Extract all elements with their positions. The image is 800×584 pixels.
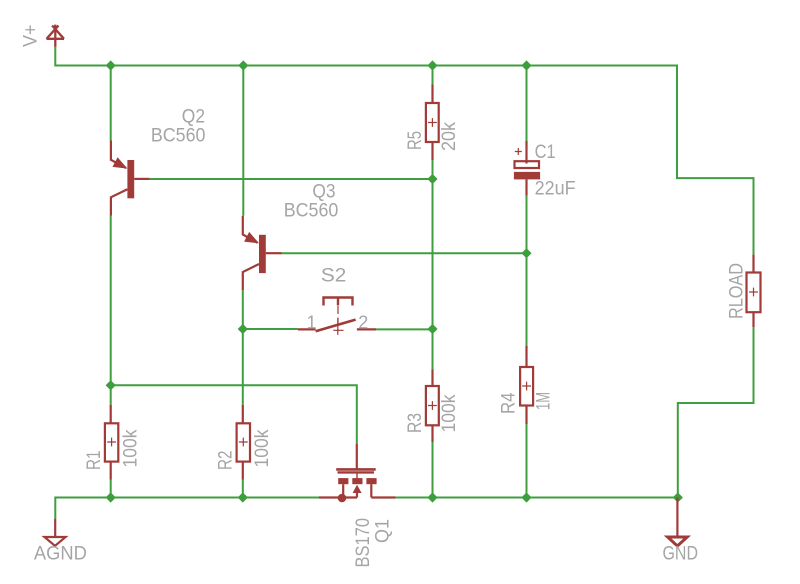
wire bottom rail right GND <box>396 497 678 499</box>
wire R5 top net <box>432 66 434 85</box>
resistor R5 <box>426 85 439 161</box>
resistor R1 <box>105 405 118 480</box>
junction bottom rail R4 <box>521 492 531 502</box>
junction S2 right <box>427 324 437 334</box>
svg-text:AGND: AGND <box>34 543 87 565</box>
wire RLOAD bottom to GND node <box>678 327 754 496</box>
svg-text:100k: 100k <box>438 394 460 432</box>
wire R3 bottom net <box>432 442 434 498</box>
svg-text:20k: 20k <box>438 122 460 151</box>
svg-text:RLOAD: RLOAD <box>726 263 748 319</box>
svg-text:1M: 1M <box>533 392 555 410</box>
ground GND symbol <box>668 498 688 547</box>
wire gate net <box>111 385 357 444</box>
svg-text:100k: 100k <box>120 429 142 467</box>
wire C1 top net <box>526 66 528 142</box>
wire V+ rail top <box>55 47 677 66</box>
wire Q2 base net <box>150 178 433 180</box>
junction S2 left <box>238 324 248 334</box>
wire Q2 emitter feed <box>110 66 112 141</box>
wire S2 pin2 net <box>376 328 433 330</box>
junction top rail A <box>106 60 116 70</box>
junction top rail C <box>427 60 437 70</box>
wire R4 bottom net <box>526 424 528 498</box>
svg-text:100k: 100k <box>251 429 273 467</box>
wire Q3 emitter feed <box>242 66 244 216</box>
svg-text:V+: V+ <box>20 25 42 48</box>
transistor Q2 <box>111 141 150 216</box>
resistor RLOAD <box>747 255 761 328</box>
wire R5 bottom to S2 node <box>432 160 434 329</box>
junction top rail D <box>521 60 531 70</box>
svg-text:22uF: 22uF <box>535 178 576 200</box>
svg-text:Q1: Q1 <box>372 519 394 543</box>
wire R3 top net <box>432 329 434 370</box>
svg-text:R3: R3 <box>404 413 426 433</box>
svg-text:C1: C1 <box>535 141 556 163</box>
wire S2 node to R2 <box>242 329 244 405</box>
wire R1 bottom net <box>110 480 112 498</box>
svg-text:BC560: BC560 <box>284 199 339 221</box>
svg-text:R2: R2 <box>214 451 236 471</box>
resistor R3 <box>426 370 439 443</box>
svg-text:R1: R1 <box>83 451 105 471</box>
junction top rail B <box>238 60 248 70</box>
transistor Q3 <box>243 216 282 290</box>
svg-text:S2: S2 <box>321 265 347 287</box>
junction bottom rail GND <box>673 492 683 502</box>
svg-text:BC560: BC560 <box>151 124 206 146</box>
wire R2 bottom net <box>242 480 244 498</box>
wire R1 top lead net <box>110 385 112 405</box>
wire S2 pin1 net <box>243 328 298 330</box>
ground AGND symbol <box>44 519 65 546</box>
junction R1 top <box>106 380 116 390</box>
wire Q3 collector to S2 node <box>242 290 244 329</box>
resistor R4 <box>520 346 533 424</box>
wire right drop to RLOAD <box>677 65 754 255</box>
junction bottom rail R1 <box>106 492 116 502</box>
junction bottom rail R2 <box>238 492 248 502</box>
wire Q3 base net <box>282 252 527 254</box>
wire R4 top net <box>526 253 528 346</box>
supply V+ symbol <box>47 25 65 47</box>
svg-text:GND: GND <box>663 543 699 565</box>
svg-text:R5: R5 <box>404 131 426 150</box>
wire bottom rail left AGND <box>55 498 319 519</box>
junction bottom rail R3 <box>427 492 437 502</box>
junction R5 bottom Q2 base <box>427 174 437 184</box>
svg-text:1: 1 <box>307 312 317 332</box>
wire C1 bottom net <box>526 196 528 253</box>
switch S2 <box>298 298 376 335</box>
junction Q3 base C1 <box>521 248 531 258</box>
svg-text:R4: R4 <box>498 392 520 414</box>
capacitor C1 <box>514 141 540 196</box>
transistor Q1 MOSFET <box>319 444 396 502</box>
svg-text:2: 2 <box>358 312 368 332</box>
resistor R2 <box>237 405 250 480</box>
wire Q2 collector down <box>110 216 112 386</box>
